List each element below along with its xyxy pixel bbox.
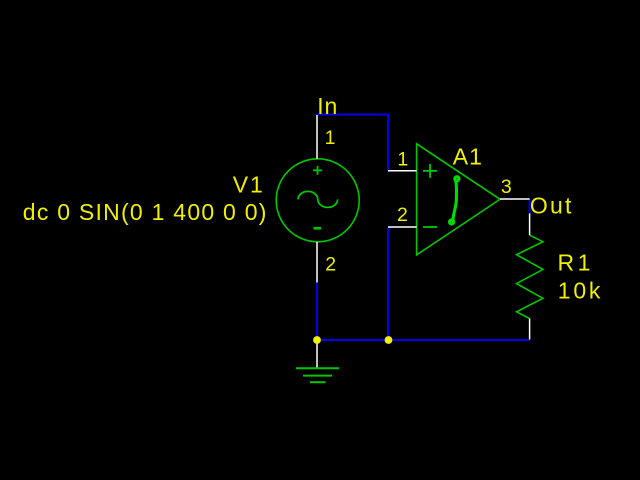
svg-text:2: 2: [325, 254, 336, 276]
ground symbol: [296, 340, 339, 382]
resistor R1: zigzag body: [517, 235, 543, 318]
junction dot at A1 pin2 net: [385, 336, 393, 344]
pin 1 of A1 (white stub): [388, 170, 417, 172]
voltage source V1: minus sign: [314, 227, 322, 230]
pin 1 of V1 (white stub, top): [316, 115, 318, 159]
wire: A1 pin 2 down to ground rail: [387, 227, 389, 340]
wire net In: vertical segment to A1 pin 1: [387, 114, 389, 171]
op-amp A1: integral sign: [450, 177, 460, 224]
wire: bottom ground rail: [317, 339, 530, 341]
voltage source V1: plus sign: [313, 166, 322, 175]
svg-text:dc 0 SIN(0 1 400 0 0): dc 0 SIN(0 1 400 0 0): [23, 199, 268, 225]
pin 1 of R1 (white stub, top): [529, 214, 531, 236]
svg-text:V1: V1: [233, 171, 265, 197]
svg-text:1: 1: [397, 148, 408, 170]
voltage source V1: sine wave: [298, 191, 338, 207]
svg-text:R1: R1: [558, 250, 594, 276]
pin 2 of R1 (white stub, bottom): [529, 319, 531, 340]
svg-text:10k: 10k: [558, 277, 603, 303]
wire: V1 pin 2 down to ground rail: [316, 283, 318, 341]
wire net Out: short vertical from A1 output to R1: [529, 199, 531, 214]
pin 2 of V1 (white stub, bottom): [316, 242, 318, 283]
junction dot at V1/ground: [313, 336, 321, 344]
svg-text:A1: A1: [453, 144, 483, 170]
op-amp A1: minus input symbol: [423, 226, 437, 228]
op-amp integrator A1: triangle body: [417, 144, 500, 255]
voltage source V1: circle body: [276, 159, 359, 242]
svg-text:Out: Out: [530, 192, 574, 218]
pin 3 of A1 (white output stub): [500, 198, 530, 200]
wire net In: horizontal segment: [316, 114, 388, 116]
svg-text:2: 2: [397, 204, 408, 226]
svg-text:1: 1: [325, 127, 336, 149]
op-amp A1: plus input symbol: [423, 164, 437, 178]
svg-text:3: 3: [501, 176, 512, 198]
pin 2 of A1 (white stub): [388, 226, 417, 228]
svg-text:In: In: [317, 93, 338, 119]
